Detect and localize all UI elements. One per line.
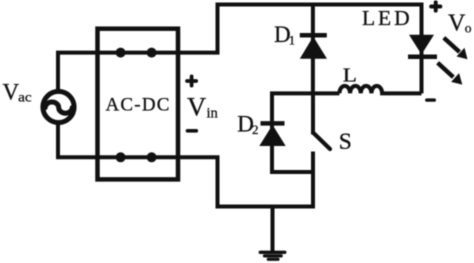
- AC-DC converter box U1: [98, 29, 179, 180]
- terminal dot: top-right: [147, 48, 157, 58]
- wire: switch bottom stub to bottom rail: [311, 152, 315, 207]
- svg-text:V: V: [187, 91, 206, 121]
- svg-text:AC-DC: AC-DC: [106, 94, 171, 115]
- polarity - (Vin): [188, 129, 197, 133]
- label Vo: [448, 11, 472, 37]
- label D2: [237, 111, 258, 137]
- svg-text:V: V: [448, 11, 466, 37]
- svg-text:LED: LED: [362, 6, 413, 30]
- wire: AC source top to AC-DC top terminals, up to top rail, along top rail, down right rail: [58, 5, 422, 94]
- svg-text:1: 1: [289, 33, 296, 48]
- label Vin: [187, 91, 219, 121]
- polarity - (Vo): [427, 98, 435, 101]
- svg-text:in: in: [207, 105, 219, 121]
- LED light arrow 2: [438, 63, 463, 85]
- polarity + (Vin): [187, 76, 196, 85]
- wire: AC source bottom to AC-DC bottom terminals, down to bottom rail: [58, 125, 315, 207]
- svg-text:ac: ac: [18, 89, 32, 104]
- label Vac: [3, 79, 32, 104]
- wire: D2 bottom to switch bottom link: [270, 170, 313, 174]
- terminal dot: bottom-right: [147, 152, 157, 162]
- svg-text:V: V: [3, 79, 20, 104]
- ground: [260, 252, 285, 259]
- diode D2: [259, 123, 285, 146]
- wire: D1 branch from top rail down to mid node: [311, 5, 315, 94]
- wire: ground stem: [271, 205, 275, 252]
- wire: D2 branch down from mid wire, mid wire to inductor and right rail: [272, 93, 339, 172]
- svg-text:S: S: [339, 129, 352, 155]
- terminal dot: bottom-left: [116, 152, 126, 162]
- AC source Vac: [43, 91, 74, 122]
- LED light arrow 1: [444, 38, 468, 60]
- inductor L: [339, 86, 421, 94]
- diode D1: [300, 35, 327, 59]
- switch S blade: [313, 133, 330, 150]
- wire: switch top contact from mid node: [311, 93, 315, 134]
- svg-text:2: 2: [252, 122, 259, 137]
- svg-text:o: o: [465, 20, 472, 35]
- polarity + (Vo): [431, 2, 440, 10]
- svg-text:L: L: [343, 64, 357, 86]
- terminal dot: top-left: [116, 48, 126, 58]
- LED D3: [408, 35, 437, 57]
- label D1: [274, 22, 295, 48]
